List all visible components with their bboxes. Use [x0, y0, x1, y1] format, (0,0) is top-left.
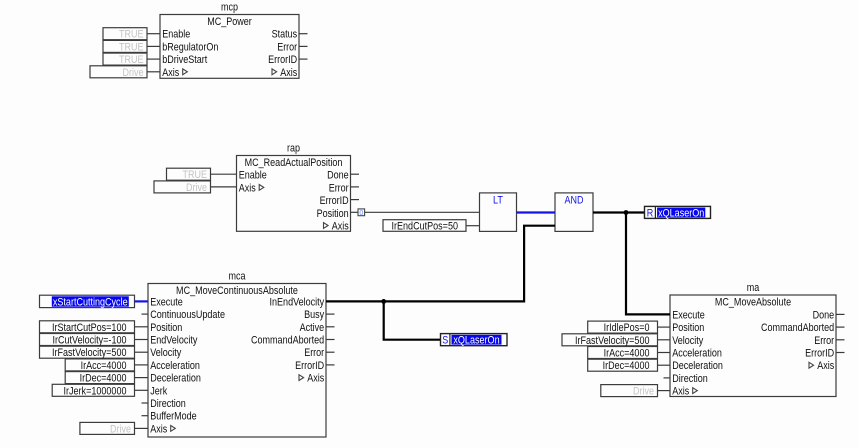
- set coil S xQLaserOn (selected): [441, 334, 508, 347]
- wire value box to mca.EndVelocity: [135, 339, 149, 341]
- junction node on InEndVelocity wire: [381, 299, 386, 304]
- wire value box to mca.Jerk: [135, 389, 149, 391]
- svg-text:IrFastVelocity=500: IrFastVelocity=500: [52, 347, 127, 359]
- variable box IrFastVelocity=500: [40, 346, 135, 359]
- stub mca.CommandAborted output: [326, 339, 335, 341]
- svg-text:bRegulatorOn: bRegulatorOn: [162, 41, 218, 53]
- variable Drive input box for ma.Axis: [601, 385, 658, 398]
- stub ma.Error output: [836, 339, 845, 341]
- svg-text:IrAcc=4000: IrAcc=4000: [604, 348, 650, 360]
- svg-text:Direction: Direction: [672, 373, 708, 385]
- svg-text:Done: Done: [327, 170, 349, 182]
- svg-text:MC_MoveContinuousAbsolute: MC_MoveContinuousAbsolute: [176, 285, 298, 297]
- wire value box to mca.Axis: [135, 427, 149, 429]
- wire value box to ma.Acceleration: [658, 352, 671, 354]
- variable box xStartCuttingCycle (selected): [40, 295, 135, 308]
- wire mca.InEndVelocity to AND input 2: [326, 226, 555, 302]
- svg-text:IrStartCutPos=100: IrStartCutPos=100: [52, 322, 127, 334]
- svg-text:CommandAborted: CommandAborted: [761, 322, 834, 334]
- svg-text:Axis: Axis: [672, 386, 689, 398]
- svg-text:Done: Done: [813, 309, 835, 321]
- svg-text:IrIdlePos=0: IrIdlePos=0: [604, 322, 650, 334]
- svg-text:Drive: Drive: [123, 67, 144, 79]
- variable Drive input box for rap.Axis: [154, 181, 211, 194]
- svg-text:IrDec=4000: IrDec=4000: [603, 360, 650, 372]
- online value box 0 on rap.Position: [358, 209, 365, 217]
- variable box IrStartCutPos=100: [40, 321, 135, 334]
- svg-text:Execute: Execute: [150, 296, 183, 308]
- stub mca.ContinuousUpdate input: [142, 313, 149, 315]
- svg-text:0: 0: [359, 210, 363, 217]
- function block mcp (MC_Power): [160, 1, 299, 79]
- svg-text:ma: ma: [747, 282, 760, 294]
- stub ma.ErrorID output: [836, 352, 845, 354]
- svg-text:ContinuousUpdate: ContinuousUpdate: [150, 309, 225, 321]
- svg-text:Axis: Axis: [817, 360, 834, 372]
- svg-text:Acceleration: Acceleration: [672, 348, 722, 360]
- wire xStartCuttingCycle to mca.Execute (blue, TRUE): [135, 300, 149, 302]
- gate AND block: [555, 193, 593, 232]
- stub ma.Direction input: [664, 377, 671, 379]
- variable Drive input box for mca.Axis: [80, 422, 135, 435]
- variable box IrAcc=4000 (mca): [65, 359, 134, 372]
- stub mcp.Status output: [299, 33, 308, 35]
- svg-text:Direction: Direction: [150, 398, 186, 410]
- literal TRUE input box for mcp.bDriveStart: [103, 53, 147, 66]
- svg-text:xQLaserOn: xQLaserOn: [658, 207, 704, 219]
- svg-text:IrFastVelocity=500: IrFastVelocity=500: [575, 335, 650, 347]
- svg-text:Axis: Axis: [307, 373, 324, 385]
- svg-text:ErrorID: ErrorID: [268, 54, 297, 66]
- wire rap.Position to online value box: [351, 211, 359, 213]
- svg-text:Position: Position: [672, 322, 704, 334]
- wire TRUE to mcp.Enable: [147, 33, 160, 35]
- svg-text:Deceleration: Deceleration: [150, 373, 201, 385]
- svg-text:EndVelocity: EndVelocity: [150, 335, 198, 347]
- wire LT output to AND input 1 (blue, TRUE): [517, 211, 556, 213]
- svg-text:IrCutVelocity=-100: IrCutVelocity=-100: [53, 335, 127, 347]
- stub mca.BufferMode input: [142, 415, 149, 417]
- svg-text:ErrorID: ErrorID: [295, 360, 324, 372]
- svg-text:Position: Position: [150, 322, 182, 334]
- wire AND output to R coil xQLaserOn: [593, 211, 645, 213]
- wire TRUE to mcp.bRegulatorOn: [147, 45, 160, 47]
- svg-text:Deceleration: Deceleration: [672, 360, 723, 372]
- variable Drive input box for mcp.Axis: [90, 66, 147, 79]
- svg-text:Position: Position: [317, 208, 349, 220]
- wire Drive to mcp.Axis: [147, 71, 160, 73]
- stub rap.Done output: [351, 173, 360, 175]
- variable box IrCutVelocity=-100: [40, 334, 135, 347]
- svg-text:Drive: Drive: [186, 182, 207, 194]
- svg-text:ErrorID: ErrorID: [320, 195, 349, 207]
- stub mca.ErrorID output: [326, 364, 335, 366]
- svg-text:Drive: Drive: [110, 423, 131, 435]
- wire value box to ma.Velocity: [658, 339, 671, 341]
- svg-text:xQLaserOn: xQLaserOn: [453, 335, 499, 347]
- junction node on AND output wire: [624, 210, 629, 215]
- svg-text:InEndVelocity: InEndVelocity: [270, 296, 325, 308]
- svg-text:rap: rap: [287, 142, 300, 154]
- variable box IrFastVelocity=500 (ma): [562, 334, 658, 347]
- stub rap.ErrorID output: [351, 199, 360, 201]
- svg-text:Active: Active: [300, 322, 325, 334]
- svg-text:IrJerk=1000000: IrJerk=1000000: [64, 385, 127, 397]
- svg-text:TRUE: TRUE: [183, 169, 208, 181]
- svg-text:ErrorID: ErrorID: [805, 348, 834, 360]
- svg-text:Axis: Axis: [150, 423, 167, 435]
- function block rap (MC_ReadActualPosition): [237, 142, 351, 232]
- literal TRUE input box for mcp.Enable: [103, 28, 147, 41]
- variable box IrEndCutPos=50: [383, 220, 466, 233]
- wire value box to ma.Deceleration: [658, 364, 671, 366]
- wire value box to mca.Position: [135, 326, 149, 328]
- svg-text:Acceleration: Acceleration: [150, 360, 200, 372]
- svg-text:BufferMode: BufferMode: [150, 411, 197, 423]
- reset coil R xQLaserOn (selected): [645, 206, 711, 219]
- variable box IrAcc=4000 (ma): [588, 347, 658, 360]
- svg-text:R: R: [647, 207, 654, 219]
- svg-text:MC_ReadActualPosition: MC_ReadActualPosition: [245, 157, 343, 169]
- stub mca.Active output: [326, 326, 335, 328]
- svg-text:Error: Error: [329, 182, 349, 194]
- svg-text:Axis: Axis: [239, 182, 256, 194]
- svg-text:bDriveStart: bDriveStart: [162, 54, 207, 66]
- svg-text:TRUE: TRUE: [119, 41, 144, 53]
- variable box IrDec=4000 (ma): [588, 359, 658, 372]
- svg-text:TRUE: TRUE: [119, 54, 144, 66]
- literal TRUE input box for mcp.bRegulatorOn: [103, 40, 147, 53]
- stub mcp.ErrorID output: [299, 58, 308, 60]
- wire TRUE to rap.Enable: [211, 173, 237, 175]
- svg-text:Error: Error: [814, 335, 834, 347]
- stub mca.Direction input: [142, 402, 149, 404]
- function block mca (MC_MoveContinuousAbsolute): [148, 270, 326, 437]
- svg-text:S: S: [442, 335, 448, 347]
- svg-text:CommandAborted: CommandAborted: [251, 335, 324, 347]
- svg-text:Busy: Busy: [304, 309, 324, 321]
- wire value box to mca.Velocity: [135, 351, 149, 353]
- svg-text:Error: Error: [277, 41, 297, 53]
- svg-text:Error: Error: [304, 347, 324, 359]
- svg-text:AND: AND: [565, 194, 584, 206]
- svg-text:mca: mca: [229, 270, 247, 282]
- svg-text:Status: Status: [272, 29, 298, 41]
- svg-text:Axis: Axis: [280, 67, 297, 79]
- literal TRUE input box for rap.Enable: [167, 168, 211, 181]
- stub mca.Busy output: [326, 313, 335, 315]
- stub ma.CommandAborted output: [836, 326, 845, 328]
- svg-text:MC_Power: MC_Power: [207, 16, 252, 28]
- svg-text:LT: LT: [493, 194, 503, 206]
- svg-text:MC_MoveAbsolute: MC_MoveAbsolute: [715, 297, 791, 309]
- svg-text:IrDec=4000: IrDec=4000: [80, 373, 127, 385]
- wire value box to mca.Deceleration: [135, 377, 149, 379]
- wire branch junction to ma.Execute: [626, 213, 670, 315]
- svg-text:Execute: Execute: [672, 309, 705, 321]
- svg-text:mcp: mcp: [221, 1, 238, 13]
- stub mcp.Error output: [299, 45, 308, 47]
- function block ma (MC_MoveAbsolute): [670, 282, 836, 398]
- wire value box to ma.Axis: [658, 390, 671, 392]
- svg-text:IrAcc=4000: IrAcc=4000: [81, 360, 127, 372]
- svg-text:IrEndCutPos=50: IrEndCutPos=50: [392, 221, 459, 233]
- svg-text:Drive: Drive: [633, 386, 654, 398]
- svg-text:Velocity: Velocity: [150, 347, 181, 359]
- svg-text:Jerk: Jerk: [150, 385, 167, 397]
- svg-text:Enable: Enable: [239, 170, 267, 182]
- svg-text:TRUE: TRUE: [119, 29, 144, 41]
- svg-text:Enable: Enable: [162, 29, 190, 41]
- svg-text:Velocity: Velocity: [672, 335, 703, 347]
- stub ma.Done output: [836, 313, 845, 315]
- variable box IrDec=4000 (mca): [65, 372, 134, 385]
- wire Drive to rap.Axis: [211, 186, 237, 188]
- wire rap.Position to LT input 1: [365, 211, 480, 213]
- wire value box to ma.Position: [658, 326, 671, 328]
- wire value box to mca.Acceleration: [135, 364, 149, 366]
- comparator LT block: [480, 193, 517, 232]
- svg-text:Axis: Axis: [332, 221, 349, 233]
- svg-text:Axis: Axis: [162, 67, 179, 79]
- svg-text:xStartCuttingCycle: xStartCuttingCycle: [53, 296, 128, 308]
- variable box IrIdlePos=0: [588, 321, 658, 334]
- stub mca.Error output: [326, 351, 335, 353]
- stub rap.Error output: [351, 186, 360, 188]
- wire branch junction to S coil xQLaserOn: [384, 301, 441, 339]
- variable box IrJerk=1000000: [52, 384, 134, 397]
- wire TRUE to mcp.bDriveStart: [147, 58, 160, 60]
- wire IrEndCutPos to LT input 2: [466, 225, 480, 227]
